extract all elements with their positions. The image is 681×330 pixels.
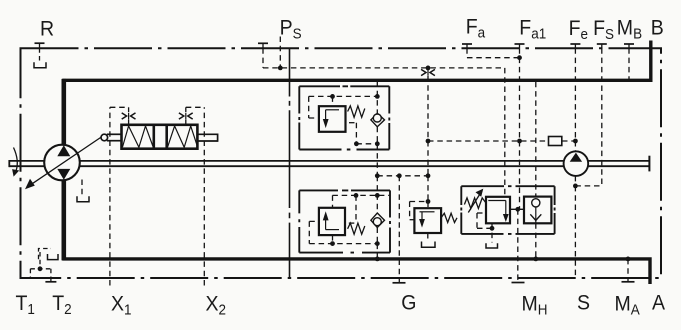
U5 pilot loop bbox=[410, 202, 428, 241]
U5 spring bbox=[441, 213, 457, 222]
wire: thick A line from pump bottom to port A bbox=[61, 180, 66, 261]
wire: MA measuring line bbox=[627, 259, 629, 282]
shaft left end cap bbox=[8, 160, 10, 167]
shaft right end cap bbox=[648, 156, 650, 172]
compensator drain + pilot loop bbox=[477, 213, 492, 243]
rod end ball joint bbox=[101, 134, 108, 141]
upper pressure valve square bbox=[319, 106, 346, 132]
wire: link compensator to check valve bbox=[510, 208, 524, 210]
port G cap bbox=[393, 282, 406, 284]
svg-text:B: B bbox=[651, 17, 664, 40]
lower pressure valve square bbox=[319, 208, 345, 235]
lower valve internal flow arrow bbox=[326, 220, 339, 230]
port MH cap bbox=[512, 282, 525, 284]
upper valve spring bbox=[348, 106, 365, 117]
actuator piston rod right bbox=[197, 133, 217, 135]
wire: PS pilot rail y=67.9 bbox=[263, 37, 505, 68]
wire: thick B line from pump top to port B bbox=[61, 79, 66, 146]
T2 plug bracket bbox=[48, 254, 59, 260]
actuator piston rod left bbox=[107, 133, 122, 135]
svg-text:S: S bbox=[577, 292, 590, 315]
node: junction dots upper/lower blocks bbox=[330, 94, 430, 261]
pump U1: main variable displacement pump bbox=[44, 145, 80, 181]
stroking cylinder (actuator) bbox=[122, 125, 198, 149]
valve block U3 (lower: HP relief / boost valve block) bbox=[299, 190, 390, 252]
upper valve internal flow arrow bbox=[326, 110, 339, 120]
wire: G pilot line bbox=[398, 176, 400, 283]
wire: Fa / Fa1 pilot lines bbox=[467, 48, 520, 209]
wire: MH measuring line bbox=[517, 209, 519, 282]
lower check valve (diamond with ball) bbox=[371, 213, 385, 228]
wire: S suction line bbox=[574, 176, 576, 278]
boost check valve square bbox=[524, 197, 551, 224]
port R bbox=[35, 42, 45, 44]
orifice in PS branch bbox=[421, 69, 435, 76]
separator line between pump and valve section bbox=[289, 48, 291, 278]
wire: Fe line bbox=[574, 48, 576, 141]
svg-text:R: R bbox=[40, 18, 54, 41]
port caps on frame top: Fa Fa1 Fe FS MB bbox=[462, 43, 634, 45]
port R plug bbox=[34, 62, 46, 68]
X1 pilot line bbox=[110, 107, 129, 285]
labels bottom bbox=[16, 292, 666, 318]
compensator valve square bbox=[486, 197, 510, 224]
valve block U2 (upper: HP relief / boost valve block) bbox=[299, 86, 389, 149]
wire: horizontal pilot link y=175.8 bbox=[377, 175, 428, 177]
actuator right spring bbox=[168, 126, 197, 147]
pump U4: auxiliary boost pump bbox=[574, 141, 576, 151]
svg-text:A: A bbox=[652, 292, 665, 315]
wire: FS line bbox=[575, 48, 601, 186]
orifice at X1 pilot bbox=[122, 113, 136, 120]
valve U5: pressure cut-off pilot valve bbox=[414, 208, 441, 233]
port MA cap bbox=[622, 281, 635, 283]
port T1 / T2 cluster bbox=[30, 249, 51, 282]
wire: PS line down to compensator bbox=[504, 68, 506, 197]
U5 drain plug bbox=[422, 242, 436, 248]
actuator left spring bbox=[123, 126, 154, 147]
valve block U6 (pressure compensator + boost check) bbox=[461, 186, 554, 234]
variable displacement arrow through pump bbox=[25, 138, 101, 190]
svg-text:G: G bbox=[401, 292, 416, 315]
orifice plug on rail bbox=[549, 137, 562, 146]
upper check valve (diamond with ball) bbox=[371, 113, 385, 127]
wire: B boost line down through check bbox=[535, 82, 537, 259]
wire: pilot branch from PS down to small valve bbox=[427, 68, 429, 202]
pump case drain line bbox=[81, 180, 83, 196]
port T2 cap bbox=[45, 281, 56, 283]
drive shaft (double line) bbox=[9, 160, 650, 162]
pump case drain plug symbol bbox=[77, 196, 89, 201]
orifice at X2 pilot bbox=[179, 113, 193, 120]
wire: cross rail y=141 bbox=[428, 140, 575, 142]
lower block pilot lines bbox=[309, 176, 389, 259]
lower valve spring bbox=[348, 223, 365, 234]
upper block pilot lines bbox=[309, 82, 378, 176]
wire: MB line bbox=[628, 48, 630, 80]
port PS cap on frame bbox=[258, 42, 268, 44]
housing frame (dash-dot outline) bbox=[21, 48, 662, 278]
compensator adjustable spring bbox=[464, 198, 486, 209]
compensator drain plug bbox=[486, 243, 498, 248]
rotation direction arrow at shaft bbox=[12, 148, 19, 177]
labels top bbox=[40, 16, 664, 42]
X2 pilot line bbox=[186, 107, 205, 285]
